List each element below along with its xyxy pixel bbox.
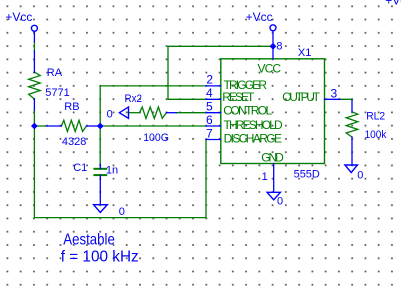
svg-text:DISCHARGE: DISCHARGE (224, 131, 282, 145)
svg-text:555D: 555D (294, 169, 320, 181)
svg-text:2: 2 (206, 73, 213, 87)
svg-text:4: 4 (206, 86, 213, 100)
svg-text:1: 1 (262, 171, 268, 183)
svg-text:100k: 100k (365, 129, 387, 141)
svg-text:100G: 100G (143, 132, 169, 144)
svg-text:8: 8 (276, 41, 282, 53)
svg-text:Rx2: Rx2 (125, 93, 143, 105)
svg-text:RB: RB (64, 101, 79, 113)
svg-text:4328: 4328 (62, 136, 86, 148)
svg-text:+Vcc: +Vcc (5, 10, 32, 24)
svg-text:THRESHOLD: THRESHOLD (224, 118, 284, 132)
svg-text:1n: 1n (106, 164, 118, 176)
svg-text:RA: RA (47, 67, 63, 79)
svg-text:GND: GND (261, 151, 284, 165)
svg-text:+Vcc: +Vcc (246, 10, 273, 24)
svg-text:VCC: VCC (258, 62, 282, 76)
svg-text:7: 7 (206, 126, 213, 140)
svg-text:f = 100 kHz: f = 100 kHz (61, 248, 139, 265)
svg-text:3: 3 (331, 86, 338, 100)
svg-text:0: 0 (357, 170, 363, 182)
svg-text:X1: X1 (298, 47, 311, 59)
svg-text:RL2: RL2 (366, 110, 385, 122)
svg-text:5: 5 (206, 100, 213, 114)
svg-text:CONTROL: CONTROL (223, 103, 272, 117)
svg-text:0: 0 (107, 108, 113, 120)
svg-text:+Vcc: +Vcc (385, 0, 401, 7)
svg-text:0: 0 (119, 206, 125, 218)
svg-text:RESET: RESET (222, 90, 255, 104)
svg-text:5771: 5771 (45, 87, 69, 99)
svg-text:C1: C1 (73, 162, 87, 174)
svg-text:Aestable: Aestable (63, 232, 115, 249)
svg-text:OUTPUT: OUTPUT (282, 90, 320, 104)
svg-text:0: 0 (277, 195, 283, 207)
svg-text:6: 6 (206, 113, 213, 127)
